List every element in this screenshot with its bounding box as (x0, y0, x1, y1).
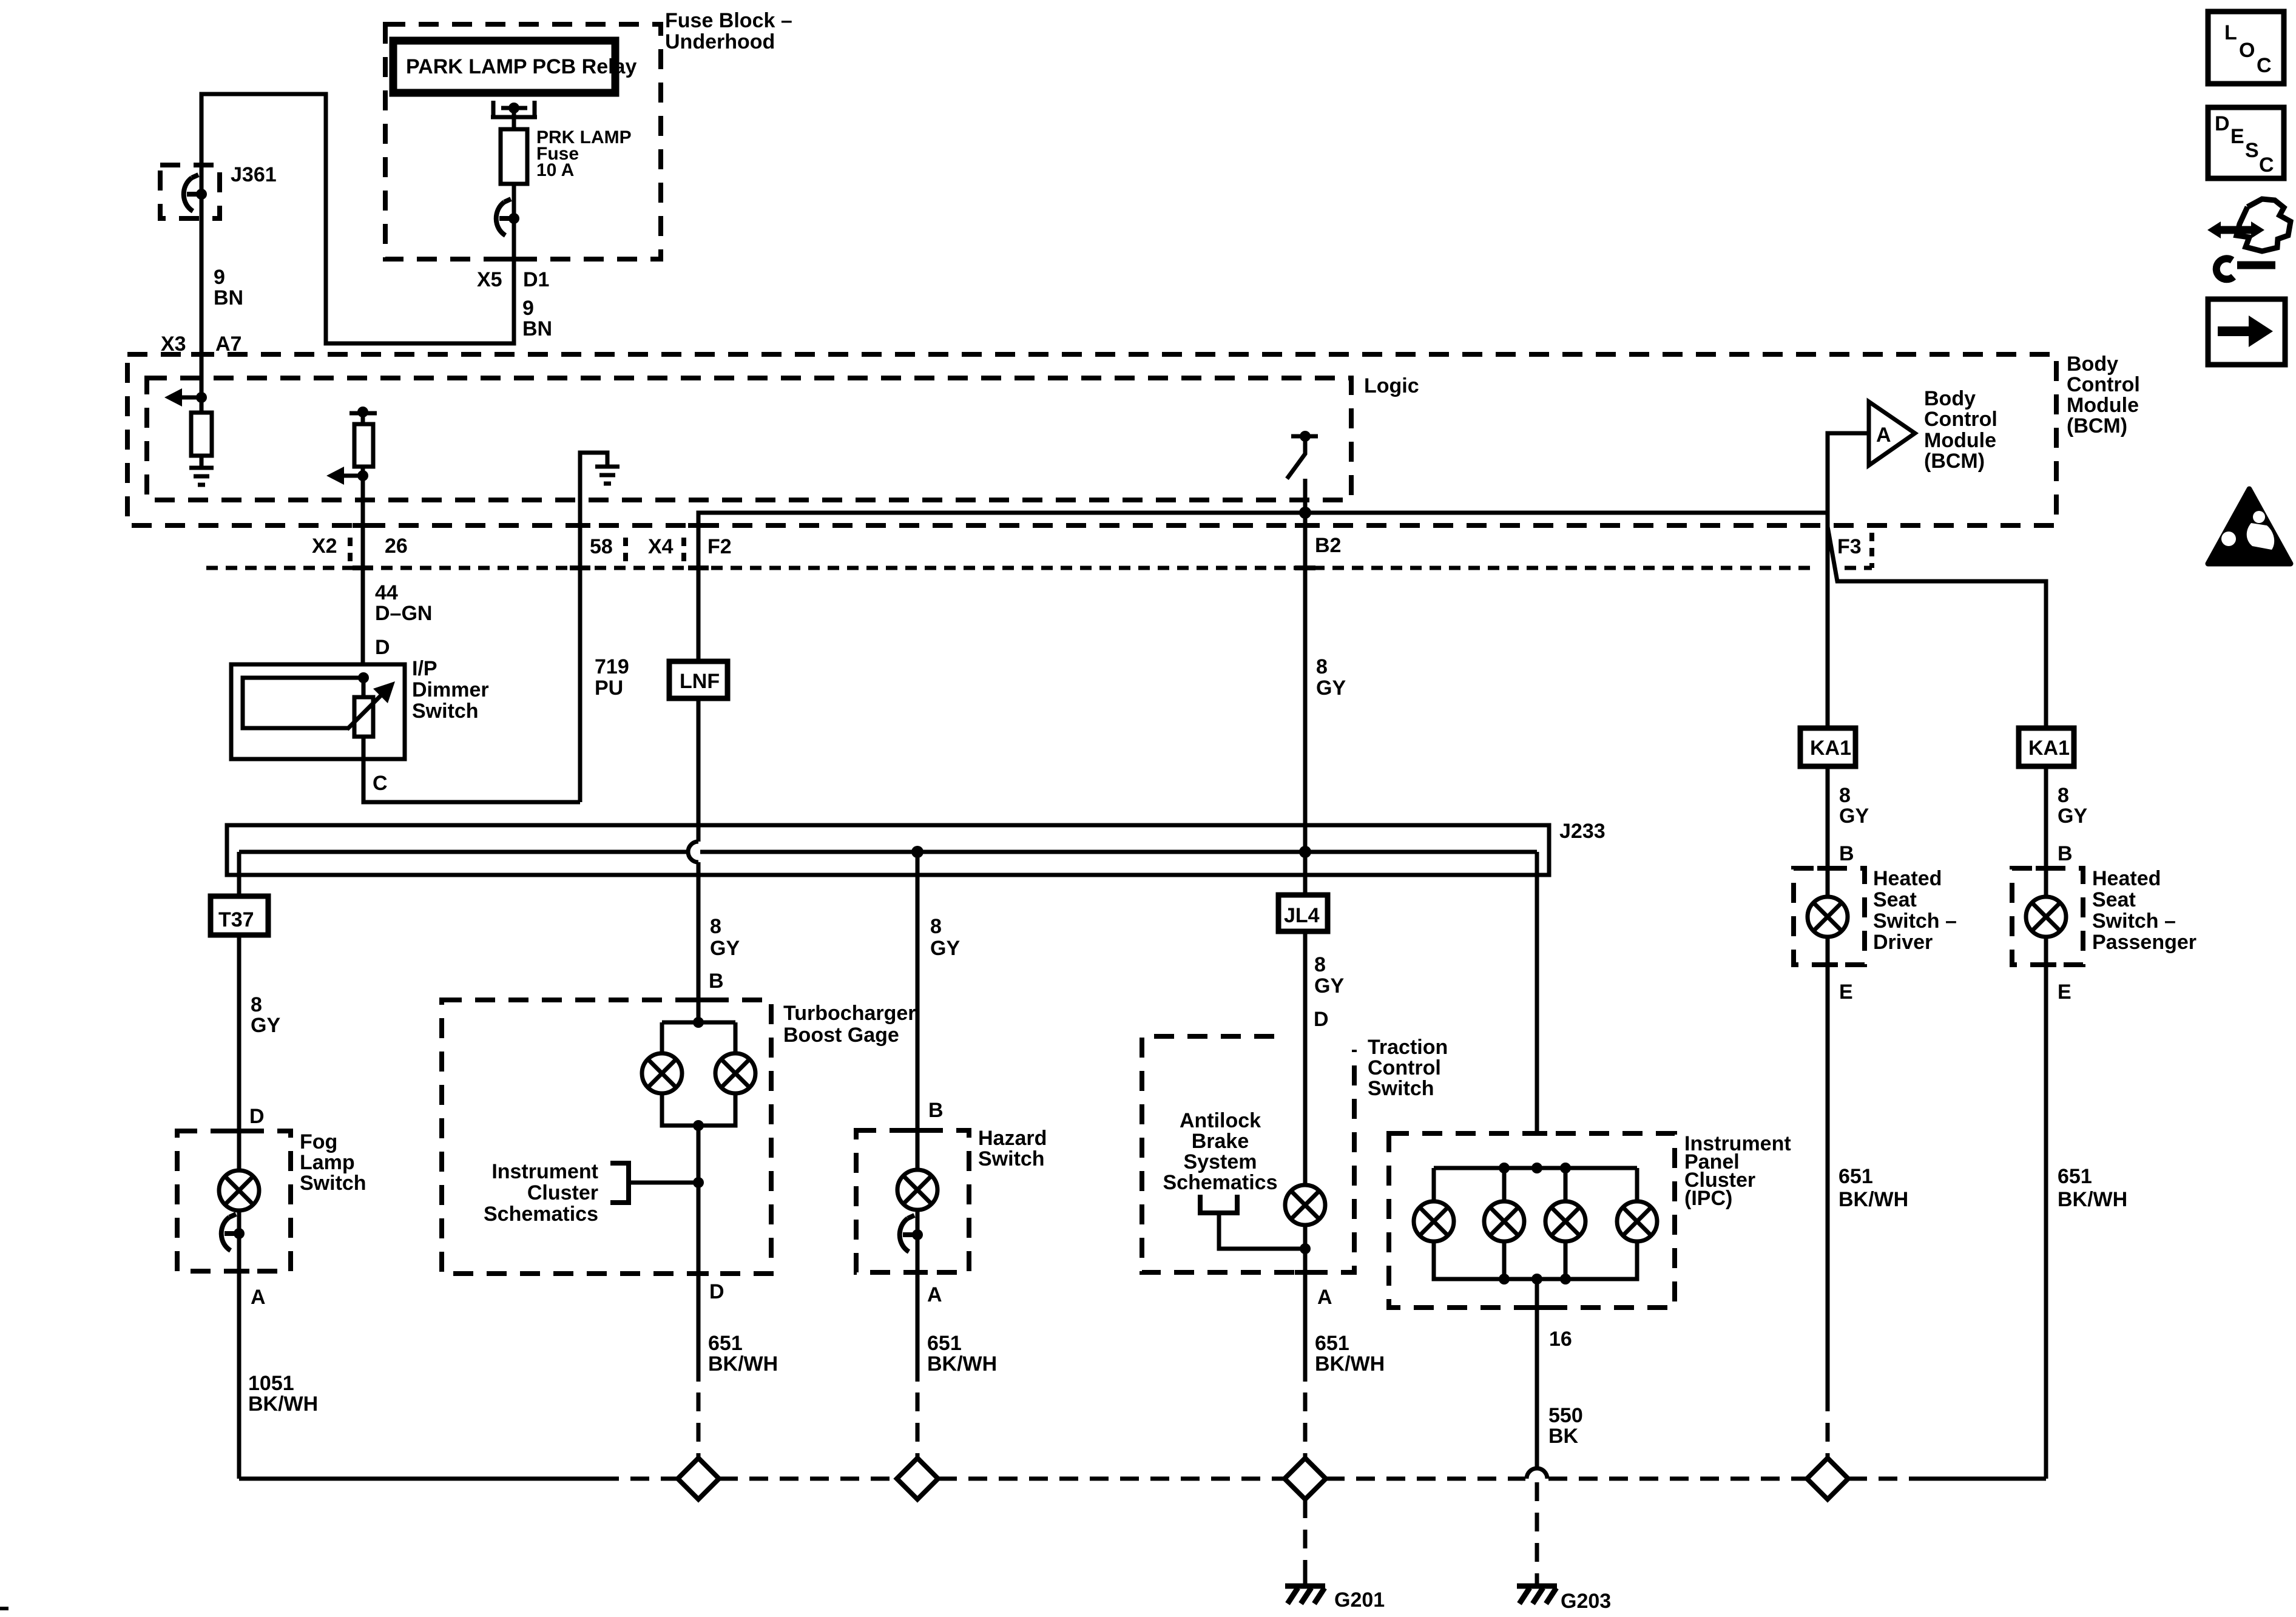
svg-text:Antilock: Antilock (1180, 1109, 1261, 1132)
wire traction lamp to A (1303, 1225, 1308, 1382)
svg-text:Schematics: Schematics (484, 1203, 598, 1226)
svg-text:Control: Control (2067, 373, 2140, 396)
ground G201 (1285, 1575, 1325, 1604)
svg-text:J233: J233 (1559, 820, 1606, 843)
svg-text:I/P: I/P (412, 657, 437, 680)
JL4 option box (1278, 895, 1328, 931)
hop over splice line (1527, 1468, 1547, 1479)
svg-text:GY: GY (251, 1014, 280, 1037)
svg-text:8: 8 (1316, 655, 1328, 678)
svg-text:B2: B2 (1315, 534, 1341, 557)
wire (scan artifact dash, bottom-left) (0, 1607, 8, 1610)
svg-text:Dimmer: Dimmer (412, 678, 489, 701)
icon airbag warning triangle (2208, 489, 2291, 564)
wire: main loop from BCM A7 pin up over to fuse (201, 94, 514, 467)
bracket (Antilock Brake System ref) (1200, 1195, 1237, 1213)
wire dimmer D to C (362, 678, 366, 802)
turbo boost gage dashed box (442, 1000, 771, 1274)
svg-text:BK/WH: BK/WH (1838, 1188, 1908, 1211)
svg-text:Hazard: Hazard (978, 1127, 1047, 1150)
svg-text:GY: GY (1314, 974, 1344, 998)
wire splice run (dashed segments) (600, 1477, 678, 1481)
svg-text:8: 8 (2058, 784, 2069, 807)
heated seat switch driver dashed box (1794, 868, 1865, 965)
svg-text:T37: T37 (218, 908, 254, 931)
svg-text:A: A (1876, 424, 1891, 447)
svg-text:D: D (709, 1280, 724, 1303)
svg-text:C: C (2257, 54, 2272, 77)
svg-text:Heated: Heated (1873, 867, 1942, 890)
svg-text:Traction: Traction (1368, 1036, 1448, 1059)
svg-text:Seat: Seat (1873, 888, 1917, 911)
wire turbo parallel top bar (662, 1021, 735, 1025)
wiper arrow (dimmer) (347, 690, 386, 729)
wire 550 BK (IPC pin 16 down) (1535, 1279, 1539, 1469)
wire below T37 (237, 935, 241, 1479)
BCM input triangle (1869, 402, 1915, 465)
junction dot (dimmer D pin) (358, 672, 369, 683)
svg-text:D: D (1314, 1008, 1329, 1031)
svg-text:Seat: Seat (2092, 888, 2136, 911)
pin ticks X2/26 (353, 523, 373, 528)
svg-text:S: S (2245, 139, 2259, 162)
wire 26 branch down to dimmer D (361, 412, 365, 678)
svg-text:LNF: LNF (680, 670, 720, 693)
svg-text:PARK LAMP PCB Relay: PARK LAMP PCB Relay (406, 55, 636, 78)
junction dot (fog switch) (234, 1228, 245, 1239)
svg-text:PU: PU (595, 677, 623, 700)
hazard wire (916, 852, 920, 1170)
wire IPC lamp feeds (1432, 1168, 1436, 1201)
icon arrow box (2208, 299, 2285, 365)
svg-text:44: 44 (375, 581, 398, 604)
Logic dashed box (147, 378, 1351, 500)
svg-text:Boost Gage: Boost Gage (783, 1024, 899, 1047)
svg-text:G201: G201 (1334, 1588, 1385, 1612)
pin bar (26 branch top) (349, 411, 377, 416)
svg-text:(BCM): (BCM) (2067, 414, 2127, 437)
svg-text:(IPC): (IPC) (1684, 1187, 1732, 1210)
wire KA1 to heated seat driver (1826, 766, 1830, 897)
junction dot (26 branch top) (357, 407, 368, 417)
wire F3 branch to KA1 passenger (1828, 527, 2046, 729)
svg-text:B: B (709, 970, 724, 993)
switch (BCM logic output) contact bar (1291, 434, 1318, 439)
svg-text:8: 8 (1839, 784, 1851, 807)
svg-text:Underhood: Underhood (665, 30, 775, 53)
svg-text:Brake: Brake (1192, 1130, 1249, 1153)
svg-text:A: A (251, 1286, 266, 1309)
svg-text:Module: Module (1924, 429, 1996, 452)
icon hand with arrow and wrench (2215, 199, 2291, 279)
wire 651 BK/WH (driver E down) (1826, 937, 1830, 1393)
bus left bend to T37 (237, 852, 241, 896)
svg-text:Schematics: Schematics (1163, 1171, 1278, 1194)
svg-text:719: 719 (595, 655, 629, 678)
lamp (heated seat switch passenger) (2026, 897, 2066, 937)
dashed to G201 (1303, 1499, 1308, 1575)
junction dot (logic switch) (1300, 431, 1311, 442)
wire 651 BK/WH (passenger E down to splice) (2044, 937, 2048, 1479)
svg-text:E: E (1839, 981, 1853, 1004)
tick X5/D1 crossing (504, 257, 524, 262)
svg-text:BN: BN (214, 286, 243, 309)
pin ticks 58 (570, 523, 590, 528)
svg-text:L: L (2224, 21, 2237, 44)
svg-text:GY: GY (710, 937, 740, 960)
switch blade (logic switch) (1287, 436, 1305, 479)
svg-text:System: System (1184, 1150, 1257, 1173)
switch hook (fog) (221, 1214, 239, 1251)
KA1 option box (passenger) (2019, 728, 2074, 766)
hazard switch dashed box (856, 1130, 969, 1272)
svg-text:BN: BN (522, 317, 552, 340)
wire C to 719 PU (363, 759, 580, 802)
wire hazard lamp to A (916, 1210, 920, 1382)
resistor R1 (A7 branch) (191, 413, 212, 456)
junction dot (26 branch) (357, 470, 368, 481)
PARK LAMP PCB Relay label box (393, 41, 615, 93)
fog lamp switch dashed box (177, 1131, 291, 1271)
junction dot (ABS tap) (1300, 1243, 1311, 1254)
svg-text:GY: GY (930, 937, 960, 960)
svg-text:8: 8 (251, 993, 262, 1016)
J233 splice pack outer rectangle (227, 825, 1549, 875)
ground (A7 branch) (189, 468, 214, 485)
wire turbo parallel bottom bar (662, 1093, 735, 1126)
svg-text:Passenger: Passenger (2092, 931, 2196, 954)
svg-text:Switch –: Switch – (2092, 910, 2176, 933)
svg-text:D–GN: D–GN (375, 602, 432, 625)
junction dot (B2 feed on J233) (1299, 846, 1311, 858)
connector J361 terminal hook (184, 175, 201, 211)
svg-text:GY: GY (2058, 805, 2087, 828)
junction dot (hazard tap on J233) (911, 846, 923, 858)
svg-text:8: 8 (1314, 953, 1326, 976)
wire IPC top bus (1434, 1166, 1637, 1170)
svg-text:Switch –: Switch – (1873, 910, 1957, 933)
lamp (IPC 2) (1484, 1201, 1524, 1241)
svg-text:Switch: Switch (300, 1172, 366, 1195)
switch hook (hazard) (900, 1215, 917, 1252)
lamp (turbo boost gage right) (715, 1053, 755, 1093)
J233 inner bus line (right) (700, 850, 1537, 854)
junction dot (ICS tap) (693, 1177, 704, 1188)
svg-text:BK/WH: BK/WH (2058, 1188, 2127, 1211)
wire 651 BK/WH (turbo D down) (697, 1274, 701, 1382)
junction dot (A7 branch) (196, 392, 207, 403)
svg-text:F3: F3 (1837, 535, 1862, 558)
svg-text:651: 651 (2058, 1165, 2092, 1188)
lamp (IPC 4) (1617, 1201, 1657, 1241)
resistor R2 (26 branch) (354, 424, 373, 467)
wire LNF to turbo gage (lower) (697, 862, 701, 1022)
junction dot (relay contact) (508, 103, 519, 113)
svg-text:X2: X2 (312, 535, 337, 558)
svg-text:26: 26 (385, 535, 408, 558)
pin ticks B2 (1295, 523, 1315, 528)
svg-text:BK/WH: BK/WH (1315, 1352, 1385, 1376)
wire 719 PU (pin 58 to dimmer C) (580, 453, 607, 802)
svg-text:C: C (2259, 154, 2274, 177)
svg-text:651: 651 (927, 1332, 962, 1355)
wire splice run (solid, from fog A) (239, 1477, 600, 1481)
svg-text:B: B (2058, 842, 2073, 865)
junction dots (IPC top bus) (1499, 1163, 1510, 1173)
lamp (heated seat switch driver) (1808, 897, 1848, 937)
svg-text:F2: F2 (707, 535, 732, 558)
junction dot (turbo bottom) (693, 1120, 704, 1131)
svg-text:GY: GY (1316, 677, 1346, 700)
svg-text:58: 58 (590, 535, 613, 558)
svg-text:Instrument: Instrument (491, 1160, 598, 1183)
lamp (hazard switch) (897, 1170, 937, 1210)
I/P dimmer switch box (231, 664, 405, 759)
svg-text:BK/WH: BK/WH (248, 1393, 318, 1416)
svg-text:O: O (2239, 39, 2255, 62)
svg-text:D: D (249, 1105, 265, 1128)
icon DESC box (2208, 107, 2284, 178)
svg-text:Control: Control (1368, 1056, 1441, 1079)
junction dot (B2 tap on F2 wire) (1299, 507, 1311, 519)
svg-text:Body: Body (1924, 387, 1976, 410)
svg-text:KA1: KA1 (1810, 737, 1851, 760)
wire hop over J233 bus (688, 842, 698, 862)
svg-text:A: A (927, 1283, 942, 1306)
svg-text:9: 9 (214, 266, 225, 289)
svg-text:Fog: Fog (300, 1130, 337, 1153)
svg-text:J361: J361 (231, 163, 277, 186)
potentiometer body (dimmer) (354, 697, 373, 737)
svg-text:D: D (2215, 112, 2230, 135)
svg-text:9: 9 (522, 297, 534, 320)
traction lamp (1285, 1185, 1325, 1225)
KA1 option box (driver) (1800, 728, 1855, 766)
lamp (fog lamp switch) (219, 1170, 259, 1210)
svg-text:550: 550 (1548, 1404, 1583, 1427)
wire F3 to KA1 driver (1826, 433, 1830, 729)
bus right bend to IPC (1535, 852, 1539, 1133)
splice diamond (hazard) (897, 1458, 938, 1499)
svg-text:Heated: Heated (2092, 867, 2161, 890)
wire turbo D down (697, 1126, 701, 1274)
LNF option box (669, 661, 728, 698)
ground (BCM internal) (595, 467, 620, 484)
svg-text:B: B (928, 1099, 944, 1122)
driver dashed to splice diamond (1826, 1393, 1830, 1458)
svg-text:Logic: Logic (1364, 374, 1419, 397)
connector row dotted bottom line (206, 566, 1817, 570)
svg-text:E: E (2058, 981, 2071, 1004)
svg-text:BK: BK (1548, 1425, 1579, 1448)
svg-text:D1: D1 (523, 268, 549, 291)
junction dot (J361) (196, 189, 207, 200)
heated seat switch passenger dashed box (2012, 868, 2083, 965)
svg-text:D: D (375, 636, 390, 659)
wire IPC bottom bus (1434, 1241, 1637, 1279)
BCM outer dashed box (127, 354, 2056, 525)
junction dot (turbo top) (693, 1017, 704, 1028)
svg-text:Body: Body (2067, 353, 2118, 376)
svg-text:(BCM): (BCM) (1924, 450, 1985, 473)
svg-text:1051: 1051 (248, 1372, 294, 1395)
svg-text:8: 8 (710, 915, 721, 938)
junction dots (IPC bottom bus) (1499, 1274, 1510, 1284)
fuse F (PRK LAMP 10 A) (501, 129, 527, 184)
svg-text:10 A: 10 A (536, 160, 574, 180)
svg-text:Turbocharger: Turbocharger (783, 1002, 916, 1025)
svg-text:Module: Module (2067, 394, 2139, 417)
T37 option box (211, 896, 268, 935)
svg-text:KA1: KA1 (2028, 737, 2070, 760)
relay contact cup (PARK LAMP PCB relay output) (491, 101, 537, 117)
svg-text:Cluster: Cluster (527, 1181, 598, 1204)
svg-text:BK/WH: BK/WH (708, 1352, 778, 1376)
junction dot (switch S1) (508, 213, 519, 224)
svg-text:Switch: Switch (1368, 1077, 1434, 1100)
lamp (turbo boost gage left) (642, 1053, 682, 1093)
svg-text:651: 651 (708, 1332, 743, 1355)
tick X3/A7 crossing (191, 352, 212, 357)
svg-text:Lamp: Lamp (300, 1151, 355, 1174)
svg-text:8: 8 (930, 915, 942, 938)
junction dot (hazard switch) (912, 1229, 923, 1240)
IPC dashed box (1389, 1133, 1675, 1308)
current arrow (A7 branch) (164, 388, 182, 407)
svg-text:G203: G203 (1561, 1590, 1611, 1613)
pin ticks F2 (688, 523, 709, 528)
wire LNF to turbo gage (upper) (697, 698, 701, 842)
traction control switch dashed box (1142, 1036, 1354, 1272)
svg-text:Switch: Switch (412, 700, 479, 723)
ground G203 (1517, 1575, 1557, 1604)
svg-text:Switch: Switch (978, 1147, 1045, 1170)
svg-text:BK/WH: BK/WH (927, 1352, 997, 1376)
current arrow (26 branch) (326, 467, 344, 485)
svg-text:X4: X4 (648, 535, 674, 558)
svg-text:651: 651 (1838, 1165, 1873, 1188)
svg-text:Driver: Driver (1873, 931, 1933, 954)
connector J361 box (160, 165, 220, 218)
bracket (Instrument Cluster Schematics ref) (610, 1163, 629, 1203)
lamp (IPC 3) (1545, 1201, 1585, 1241)
switch S1 (fuse block output) (496, 199, 514, 235)
wire F2 to BCM triangle A (698, 433, 1869, 661)
dashed to G203 (1535, 1482, 1539, 1575)
dimmer resistive element loop (243, 678, 363, 728)
wire below JL4 (1303, 931, 1308, 1185)
svg-text:C: C (373, 772, 388, 795)
svg-text:Control: Control (1924, 408, 1997, 431)
connector separators (348, 538, 353, 568)
splice diamond (traction) (1285, 1458, 1326, 1499)
B2 wire down to JL4 (1303, 479, 1308, 895)
lamp (IPC 1) (1414, 1201, 1454, 1241)
svg-text:Fuse Block –: Fuse Block – (665, 9, 792, 32)
svg-text:GY: GY (1839, 805, 1869, 828)
svg-text:16: 16 (1549, 1328, 1572, 1351)
svg-text:E: E (2230, 125, 2244, 148)
splice diamond (turbo branch) (678, 1458, 719, 1499)
svg-text:B: B (1839, 842, 1854, 865)
J233 inner bus line (left) (239, 850, 686, 854)
svg-text:651: 651 (1315, 1332, 1349, 1355)
wire KA1 to heated seat passenger (2044, 766, 2048, 897)
svg-text:A: A (1317, 1286, 1332, 1309)
fuse block underhood dashed box (385, 24, 661, 259)
svg-text:X5: X5 (477, 268, 502, 291)
icon LOC box (2208, 12, 2284, 84)
svg-text:JL4: JL4 (1284, 904, 1320, 927)
